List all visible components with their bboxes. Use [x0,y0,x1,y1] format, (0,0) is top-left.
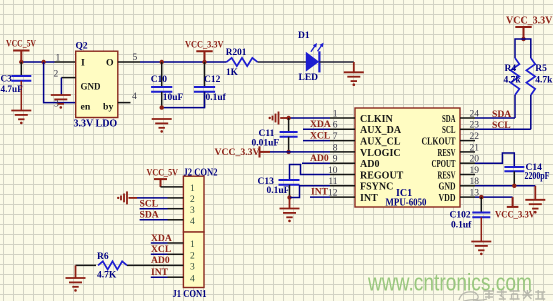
svg-text:RESV: RESV [438,148,457,159]
ground at CLKIN [273,112,279,125]
svg-text:SCL: SCL [492,120,511,131]
IC1 left pin 9 lead [330,162,355,164]
svg-text:0.1uf: 0.1uf [206,93,227,103]
connector J2 body [183,176,204,232]
power VCC_3.3V bar top right [515,27,531,39]
svg-text:1: 1 [190,240,195,250]
IC1 left pin 6 lead [330,128,355,130]
net label AD0 wire pin 9 [302,162,330,164]
svg-text:Q2: Q2 [76,42,88,52]
capacitor C3 [20,62,22,76]
wire CLKIN to ground [289,117,330,119]
wire FSYNC to C13 ground junction [290,186,331,198]
svg-text:XCL: XCL [310,130,330,141]
IC1 right pin 20 lead [460,162,475,164]
svg-text:1: 1 [56,54,61,64]
wire CPOUT to C14 [475,153,514,167]
resistor R6 [98,261,127,269]
svg-text:3: 3 [190,263,195,273]
IC1 left pin 8 lead [330,151,355,153]
wire C10 bottom to C12 bottom [162,92,205,108]
svg-text:I: I [81,58,85,69]
wire VCC_5V to J2 pin 1 [161,186,184,188]
ground below R6 [66,278,86,287]
wire Q2 pin 5 output rail [118,61,140,63]
capacitor C102 [480,197,482,212]
svg-text:R6: R6 [97,252,109,262]
capacitor C12 [204,62,206,87]
watermark gray Chinese characters [484,290,545,299]
net label XCL wire pin 7 [303,140,330,142]
svg-text:2: 2 [190,251,195,261]
resistor R5 [526,58,535,95]
svg-text:6: 6 [333,121,338,131]
svg-text:SDA: SDA [442,114,456,125]
net label INT wire pin 12 [310,196,330,198]
svg-text:D1: D1 [298,31,310,41]
wire GND pin 18 to ground [475,185,535,187]
IC1 left pin 7 lead [330,140,355,142]
svg-text:INT: INT [360,193,378,204]
svg-text:7: 7 [333,132,338,142]
svg-text:CLKOUT: CLKOUT [422,137,456,148]
svg-text:1K: 1K [226,68,239,78]
power VCC_3.3V bar below VDD [507,197,519,207]
net label INT wire J1 pin 4 [151,276,168,278]
power VCC_5V bar at J2 [154,179,167,187]
svg-text:SCL: SCL [442,125,456,136]
svg-text:www.cntronics.com: www.cntronics.com [367,270,532,297]
svg-text:2: 2 [190,195,195,205]
resistor R201 [227,58,258,66]
net label SCL wire J2 pin 3 [140,208,168,210]
svg-text:MPU-6050: MPU-6050 [386,198,427,209]
svg-text:AD0: AD0 [151,255,170,266]
connector J1 body [183,232,204,288]
node junction C14 bottom [512,184,516,188]
ground at Q2 pin 2 [51,95,71,104]
svg-text:4: 4 [132,92,137,102]
diode D1 cathode bar [318,51,320,72]
wire VCC_5V rail to Q2 pin 1 [21,61,54,63]
ground right of LED [353,62,355,72]
power VCC_3.3V sideways bar at VLOGIC [260,146,271,157]
svg-text:19: 19 [470,166,480,176]
IC1 right pin 19 lead [460,174,475,176]
svg-text:2: 2 [54,70,59,80]
net label XCL wire J1 pin 2 [151,253,168,255]
regulator Q2 body [76,51,118,117]
svg-text:AUX_DA: AUX_DA [360,125,402,136]
svg-text:1: 1 [190,184,195,194]
svg-text:XCL: XCL [151,244,171,255]
svg-text:C3: C3 [1,74,13,84]
IC1 right pin 22 lead [460,140,475,142]
svg-text:VCC_3.3V: VCC_3.3V [506,16,553,27]
svg-text:RESV: RESV [438,170,457,181]
diode D1 emission arrows [311,43,324,52]
node junction R4/R5 top [521,37,525,41]
svg-text:AD0: AD0 [360,159,379,170]
wire REGOUT to C13 top [290,165,331,181]
svg-text:C11: C11 [259,129,275,139]
IC1 left pin 12 lead [330,196,355,198]
IC1 right pin 24 lead [460,117,475,119]
wire J2 pin 2 to ground [137,197,168,199]
wire R4 bottom to SDA [514,95,516,118]
power VCC_5V bar symbol [13,51,29,63]
svg-text:LED: LED [299,73,319,83]
svg-text:CPOUT: CPOUT [432,159,456,170]
svg-text:VCC_3.3V: VCC_3.3V [495,210,535,221]
net label XDA wire pin 6 [303,128,330,130]
svg-text:CLKIN: CLKIN [360,114,394,125]
capacitor C14 [504,167,524,171]
svg-text:4.7K: 4.7K [97,271,117,281]
svg-text:REGOUT: REGOUT [360,170,404,181]
svg-text:2200pF: 2200pF [525,171,550,182]
svg-text:3.3V LDO: 3.3V LDO [74,119,118,130]
IC1 left pin 1 lead [330,117,355,119]
capacitor C10 [161,62,163,87]
svg-text:R5: R5 [535,64,547,74]
wire R5 bottom to SCL [530,95,532,129]
wire SDA pin 24 [475,117,515,119]
IC1 right pin 18 lead [460,185,475,187]
svg-text:GND: GND [81,82,101,93]
svg-text:SDA: SDA [140,210,159,221]
svg-text:C102: C102 [450,211,471,221]
svg-text:VCC_3.3V: VCC_3.3V [185,41,224,51]
svg-text:4.7uF: 4.7uF [1,84,24,94]
svg-text:9: 9 [333,155,338,165]
wire VDD pin 13 [475,196,513,198]
svg-text:1: 1 [333,109,338,119]
svg-text:0.1uf: 0.1uf [451,221,472,231]
Q2 pin 4 stub [118,102,131,104]
IC1 left pin 11 lead [330,185,355,187]
node junction C11 bottom VCC [286,150,290,154]
svg-text:XDA: XDA [310,119,331,130]
svg-text:VCC_3.3V: VCC_3.3V [215,147,260,158]
wire VCC to VLOGIC pin 8 [270,151,330,153]
svg-text:AD0: AD0 [310,153,329,164]
svg-text:en: en [81,102,91,113]
svg-text:22: 22 [470,132,480,142]
svg-text:C12: C12 [204,75,221,85]
svg-text:by: by [103,102,113,113]
svg-text:10uF: 10uF [163,93,184,103]
IC1 left pin 10 lead [330,174,355,176]
node junction C10 bottom ground [160,105,164,109]
power VCC_3.3V bar at C12 [196,51,212,62]
sideways ground at J2 pin 2 [121,191,127,204]
svg-text:INT: INT [311,186,329,197]
resistor R4 [511,58,520,95]
node junction C13 bottom [287,195,291,199]
ground at GND pin [534,186,536,200]
capacitor C13 [279,180,300,185]
svg-text:AUX_CL: AUX_CL [360,137,401,148]
ground below C13 [289,198,291,209]
net label XDA wire J1 pin 1 [151,242,168,244]
svg-text:VDD: VDD [439,193,456,204]
svg-text:SCL: SCL [140,199,159,210]
svg-text:21: 21 [470,143,480,153]
wire en feedback to Q2 pin 3 [44,62,76,103]
wire VCC to R4 and R5 tops [515,39,531,58]
net label SDA wire J2 pin 4 [140,219,168,221]
IC1 right pin 13 lead [460,196,475,198]
IC1 right pin 23 lead [460,128,475,130]
svg-text:VLOGIC: VLOGIC [360,148,401,159]
node junction VCC/C3 [19,60,23,64]
svg-text:0.1uF: 0.1uF [267,186,290,196]
Q2 pin 2 lead and wire to ground [61,77,75,79]
capacitor C11 [288,118,290,132]
svg-text:C10: C10 [151,75,168,85]
svg-text:SDA: SDA [492,109,511,120]
ground below C3 [11,111,31,120]
svg-text:XDA: XDA [151,233,172,244]
node junction C12/VCC_3.3V top [202,60,206,64]
svg-text:R201: R201 [226,48,247,58]
node junction C10 top [160,60,164,64]
svg-text:3: 3 [190,206,195,216]
wire R201 to LED anode [258,61,307,63]
svg-text:4.7k: 4.7k [535,76,553,86]
wire LED cathode to ground [319,61,354,63]
svg-text:4.7k: 4.7k [504,76,522,86]
svg-text:J1 CON1: J1 CON1 [173,289,207,300]
svg-text:GND: GND [439,182,456,193]
node junction en-branch [41,60,45,64]
wire SCL pin 23 [475,128,531,130]
node junction C11 top [286,116,290,120]
ground below C10 [152,119,172,128]
watermark gray logo [459,292,487,301]
IC1 right pin 21 lead [460,151,475,153]
diode D1 LED triangle [306,53,318,71]
svg-text:INT: INT [151,267,169,278]
ground below C102 [471,242,491,251]
svg-text:VCC_5V: VCC_5V [6,40,36,50]
svg-text:4: 4 [190,274,195,284]
net label AD0 wire J1 pin 3 [127,264,168,266]
svg-text:FSYNC: FSYNC [360,182,393,193]
wire R6 to ground [76,264,97,266]
svg-text:8: 8 [333,143,338,153]
node junction C102 top [479,195,483,199]
svg-text:R4: R4 [505,64,517,74]
svg-text:VCC_5V: VCC_5V [147,169,179,179]
op-amp IC1 MPU-6050 body [355,108,460,207]
svg-text:4: 4 [190,217,195,227]
svg-text:O: O [106,58,114,69]
